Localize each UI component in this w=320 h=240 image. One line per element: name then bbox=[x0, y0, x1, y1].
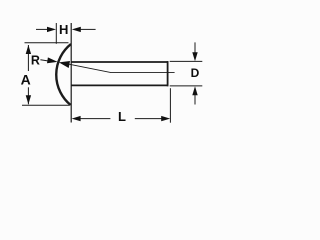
dimension D upper tail bbox=[194, 42, 196, 53]
dimension D up arrowhead bbox=[192, 86, 197, 95]
dimension D down arrowhead bbox=[192, 52, 197, 61]
shank top edge bbox=[71, 61, 168, 63]
dimension A top extension line bbox=[25, 42, 69, 44]
R leader arrowhead on arc outer side bbox=[47, 57, 58, 63]
rivet head dome arc bbox=[56, 44, 71, 105]
dimension H left arrowhead bbox=[47, 27, 56, 32]
dimension A line upper segment bbox=[27, 45, 29, 71]
dimension A top arrowhead bbox=[26, 45, 31, 54]
dimension A bottom arrowhead bbox=[26, 95, 31, 104]
svg-text:L: L bbox=[118, 109, 126, 124]
dimension A bottom extension line bbox=[22, 104, 69, 106]
dimension D top extension line bbox=[170, 60, 203, 62]
dimension L line left segment bbox=[80, 118, 110, 120]
dimension H right tail bbox=[80, 28, 95, 30]
dimension H right arrowhead bbox=[72, 27, 81, 32]
dimension L right arrowhead bbox=[161, 116, 170, 121]
dimension H left tail bbox=[36, 28, 48, 30]
radius line to centerline bbox=[69, 64, 175, 72]
shank end edge bbox=[167, 61, 169, 86]
svg-text:D: D bbox=[191, 66, 200, 80]
shank bottom edge bbox=[71, 84, 168, 86]
svg-text:H: H bbox=[59, 22, 68, 37]
rivet head flat face and vertical extension line bbox=[70, 23, 72, 123]
svg-text:R: R bbox=[31, 54, 40, 68]
R leader line bbox=[40, 60, 48, 61]
dimension A line lower segment bbox=[27, 87, 29, 104]
dimension L line right segment bbox=[135, 118, 162, 120]
dimension D bottom extension line bbox=[170, 85, 203, 87]
dimension D lower tail bbox=[194, 95, 196, 105]
radius arrowhead on arc inner side bbox=[59, 61, 70, 68]
svg-text:A: A bbox=[21, 72, 31, 88]
dimension H extension line left bbox=[55, 23, 57, 44]
dimension L right extension line bbox=[169, 88, 171, 123]
dimension L left arrowhead bbox=[72, 116, 81, 121]
